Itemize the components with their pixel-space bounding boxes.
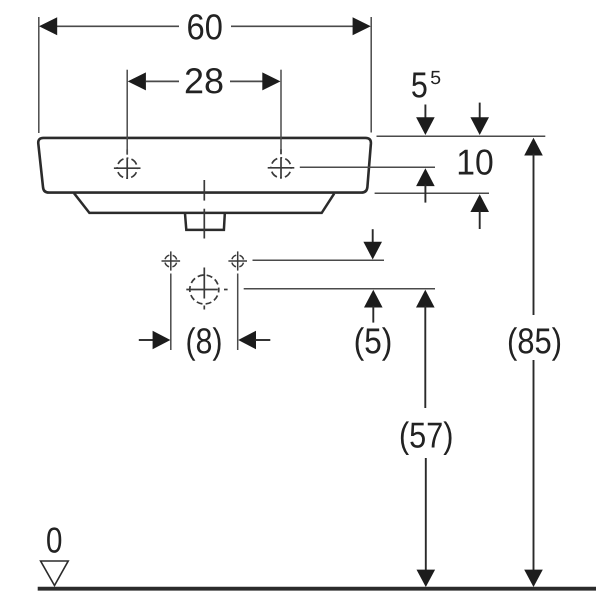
dim 10 arrow up bbox=[470, 194, 489, 212]
dim (5) arrow up bbox=[364, 290, 383, 308]
faucet hole right bbox=[268, 149, 295, 178]
dim 28 arrow left bbox=[128, 72, 146, 90]
upper fixing extension line bbox=[253, 259, 385, 261]
rim bottom extension line bbox=[375, 192, 489, 194]
basin body outline bbox=[38, 138, 371, 193]
dim 28 arrow right bbox=[262, 72, 280, 90]
dim 28 extension line left bbox=[126, 70, 128, 155]
datum triangle bbox=[41, 561, 69, 586]
dim 5.5 text bbox=[412, 73, 426, 98]
dim 60 line bbox=[56, 25, 353, 27]
dim (85) arrow down bbox=[524, 570, 543, 587]
dim 60 text bbox=[188, 14, 221, 39]
fixing holes extension line left bbox=[170, 274, 172, 351]
dim (57) text bbox=[401, 421, 452, 455]
dim (5) text bbox=[356, 327, 391, 361]
centerline vertical bbox=[203, 180, 205, 239]
dim (57) line upper bbox=[424, 306, 426, 408]
dim 10 text bbox=[459, 149, 493, 174]
basin apron bbox=[74, 193, 334, 213]
drain hole bbox=[186, 268, 227, 310]
drain trap bbox=[185, 214, 225, 230]
floor line bbox=[38, 587, 596, 591]
datum 0 text bbox=[47, 527, 61, 552]
dim (57) arrow up bbox=[416, 290, 435, 308]
faucet line extension bbox=[300, 166, 435, 168]
lower drain extension line bbox=[244, 288, 435, 290]
dim (85) text bbox=[509, 327, 560, 361]
dim 28 text bbox=[186, 68, 223, 93]
dim 10 arrow down bbox=[479, 103, 481, 119]
dim (8) text bbox=[187, 327, 220, 361]
dim 60 extension line right bbox=[370, 17, 372, 133]
dim 28 line bbox=[146, 80, 264, 82]
dim (85) arrow up bbox=[524, 138, 543, 156]
fixing hole right bbox=[228, 251, 247, 270]
dim (8) arrow left bbox=[139, 339, 154, 341]
faucet hole left bbox=[114, 150, 141, 180]
top edge extension line bbox=[377, 135, 546, 137]
dim 5.5 arrow down bbox=[424, 105, 426, 120]
dim (85) line upper bbox=[533, 154, 535, 315]
dim 5.5 arrow up bbox=[416, 168, 435, 186]
fixing hole left bbox=[162, 251, 181, 270]
dim 60 extension line left bbox=[38, 17, 40, 133]
dim (85) line lower bbox=[533, 360, 535, 572]
dim (5) arrow down bbox=[372, 229, 374, 245]
dim 28 extension line right bbox=[280, 70, 282, 155]
dim (57) line lower bbox=[425, 458, 427, 572]
dim 60 arrow left bbox=[39, 17, 57, 35]
fixing holes extension line right bbox=[237, 274, 239, 351]
dim (8) arrow right bbox=[238, 331, 256, 350]
dim (57) arrow down bbox=[417, 570, 436, 587]
dim 60 arrow right bbox=[353, 17, 371, 35]
